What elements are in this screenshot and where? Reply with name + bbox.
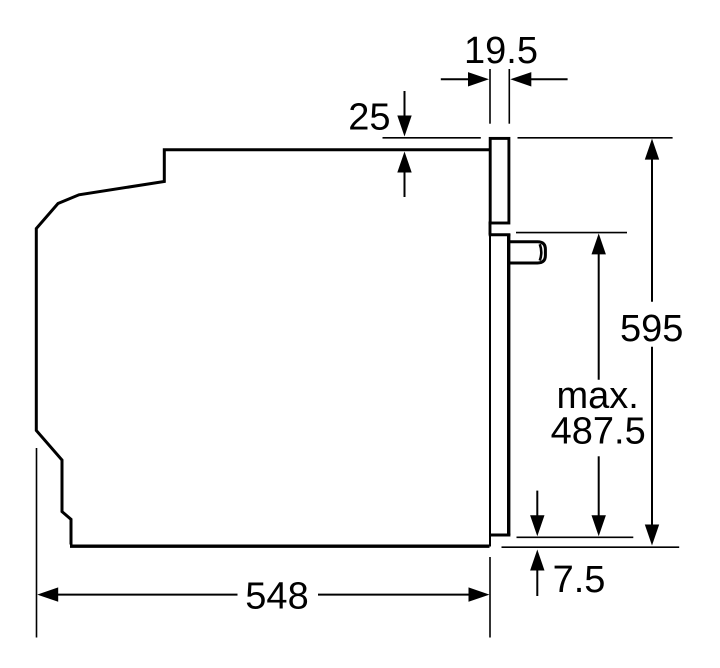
svg-text:487.5: 487.5 (551, 411, 646, 453)
svg-text:19.5: 19.5 (464, 30, 538, 72)
dimension 19.5 left arrow (441, 72, 489, 86)
mounting bolt (510, 242, 545, 263)
door left edge segment below upper panel (489, 222, 492, 235)
reference line bolt top level (516, 232, 627, 234)
svg-text:7.5: 7.5 (553, 559, 606, 601)
reference line body bottom level (502, 546, 680, 548)
svg-text:25: 25 (348, 97, 390, 139)
oven body outline (36, 150, 489, 545)
bolt end cap line (540, 244, 542, 260)
reference line top right (door front level) (518, 137, 673, 139)
extension line 548 left (36, 448, 38, 638)
svg-text:595: 595 (620, 308, 683, 350)
dimension 548 line with arrows (37, 587, 489, 601)
reference line top left (door front level) (383, 137, 481, 139)
door bottom edge (491, 534, 511, 537)
extension line 19.5 right (508, 69, 510, 124)
door lower left edge (489, 236, 491, 547)
svg-text:548: 548 (245, 576, 308, 618)
reference line door bottom level (517, 536, 634, 538)
dimension 7.5 bottom arrow (530, 550, 544, 597)
dimension 19.5 right arrow (510, 72, 567, 86)
dimension 25 top arrow (397, 91, 411, 137)
dimension 25 bottom arrow (397, 152, 411, 198)
door step line (489, 233, 511, 236)
oven body bottom edge (70, 545, 490, 548)
extension line 19.5 left (489, 69, 491, 124)
door upper panel rect (490, 138, 509, 223)
dimension max 487.5 line with arrows (592, 233, 606, 536)
extension line 548 right (489, 557, 491, 638)
dimension 7.5 top arrow (530, 491, 544, 537)
door lower right edge (507, 234, 510, 535)
dimension 595 line with arrows (645, 139, 659, 546)
